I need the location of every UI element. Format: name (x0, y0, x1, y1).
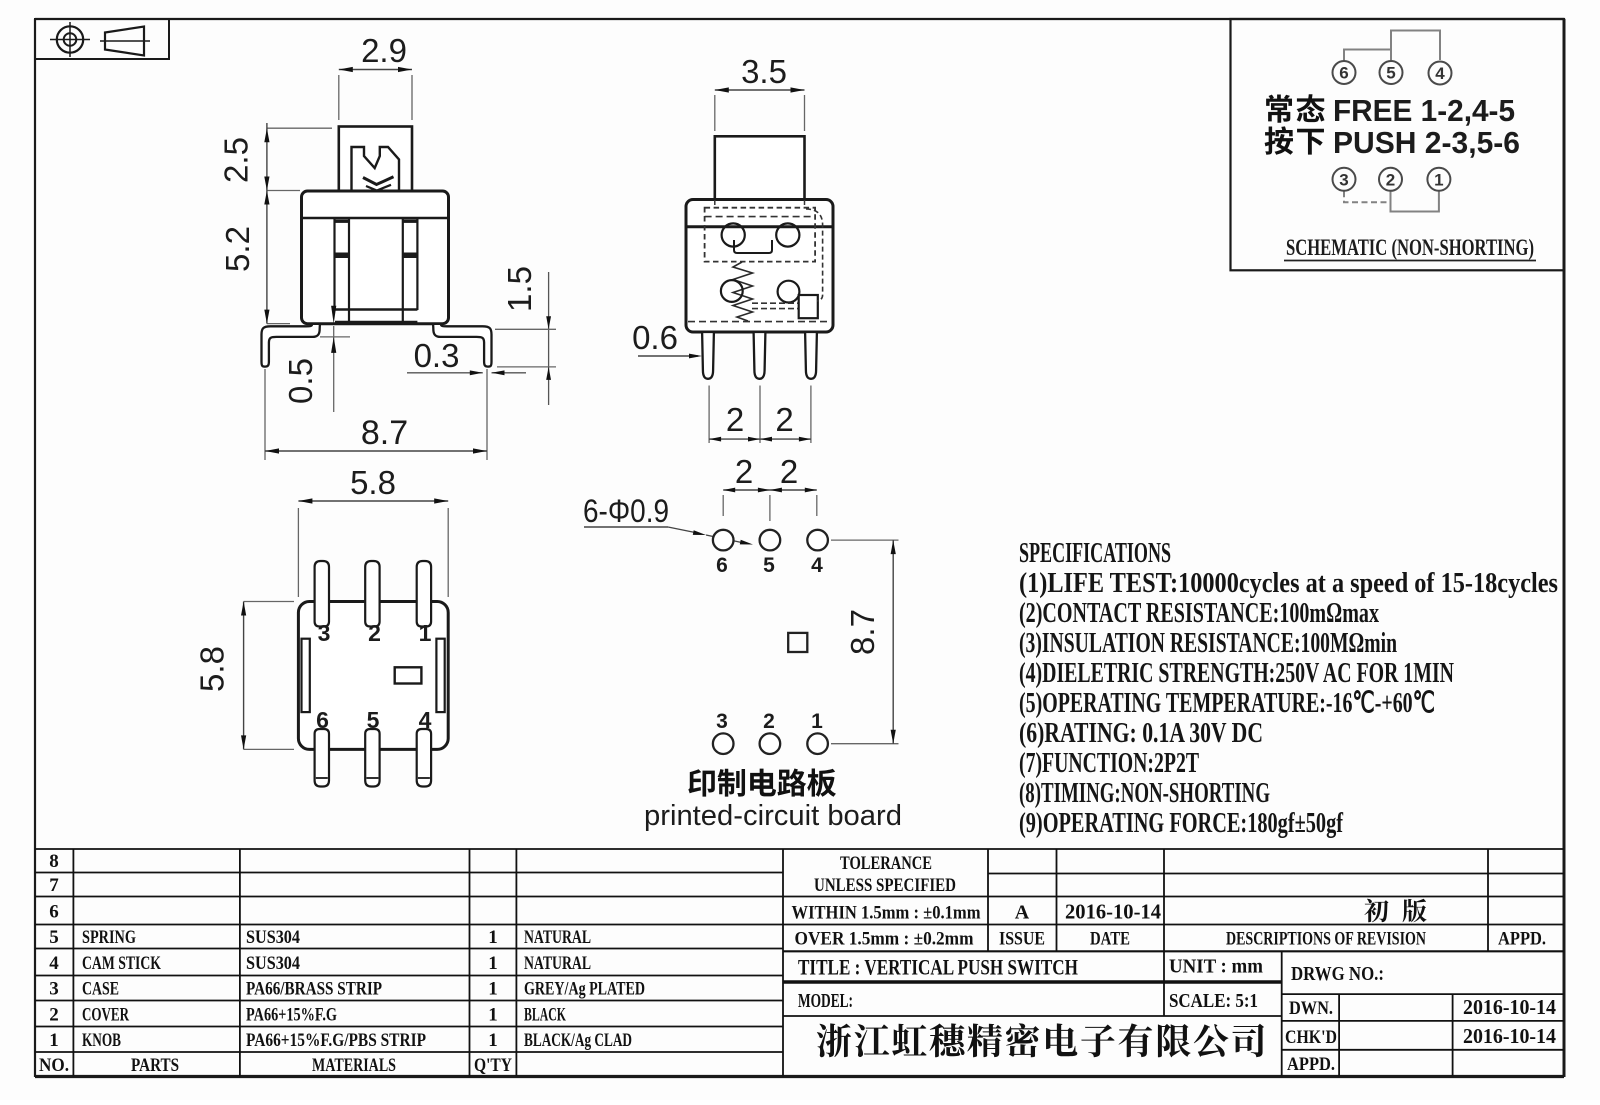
dimension 2.9 (knob width) (339, 32, 412, 120)
svg-text:(2)CONTACT RESISTANCE:100mΩmax: (2)CONTACT RESISTANCE:100mΩmax (1019, 597, 1379, 629)
svg-text:APPD.: APPD. (1498, 929, 1546, 950)
dimension 3.5 (side knob width) (715, 53, 805, 131)
parts header row (39, 1055, 512, 1076)
side view dashed wire along right wall (806, 209, 823, 301)
tolerance over row (795, 929, 974, 950)
schematic wire pin6 to pin5 (push state) (1344, 50, 1391, 61)
side view knob (715, 136, 805, 199)
svg-text:2: 2 (1386, 170, 1395, 189)
parts row 2 COVER (82, 1005, 566, 1026)
bottom view pin 2 (365, 561, 379, 627)
bottom view body outline (298, 602, 448, 750)
svg-text:2.9: 2.9 (361, 32, 407, 69)
side view spring (SPRING part) (733, 262, 753, 321)
svg-text:(7)FUNCTION:2P2T: (7)FUNCTION:2P2T (1019, 747, 1199, 779)
parts row 4 CAM STICK (82, 953, 591, 974)
svg-text:2: 2 (726, 401, 744, 438)
bottom view pin number 3 (318, 620, 331, 646)
bottom view pin number 2 (368, 620, 381, 646)
side view pin right (805, 332, 817, 379)
svg-text:(8)TIMING:NON-SHORTING: (8)TIMING:NON-SHORTING (1019, 777, 1270, 809)
svg-text:NO.: NO. (39, 1055, 69, 1076)
svg-text:3: 3 (318, 620, 331, 646)
svg-text:CAM STICK: CAM STICK (82, 953, 161, 974)
svg-text:2: 2 (49, 1005, 59, 1026)
pcb hole 2 (bottom row) (760, 733, 781, 754)
side view cam ball right (778, 281, 800, 303)
dimension 0.5 (leg thickness) (282, 306, 350, 412)
first-angle projection symbol box (35, 19, 169, 59)
bottom view left side groove (302, 639, 310, 712)
bottom view pin number 1 (419, 620, 432, 646)
side view pin middle (754, 332, 766, 379)
svg-text:SPECIFICATIONS: SPECIFICATIONS (1019, 537, 1171, 569)
parts row 3 CASE (82, 979, 645, 1000)
svg-text:SUS304: SUS304 (246, 927, 300, 948)
svg-text:1: 1 (49, 1030, 59, 1051)
bottom view pin number 6 (316, 707, 329, 733)
svg-text:Q'TY: Q'TY (474, 1055, 512, 1076)
svg-text:PA66+15%F.G/PBS STRIP: PA66+15%F.G/PBS STRIP (246, 1030, 426, 1051)
front view case body outline (CASE part) (302, 191, 449, 324)
side view case split line (686, 225, 833, 228)
svg-text:TITLE : VERTICAL PUSH SWITCH: TITLE : VERTICAL PUSH SWITCH (798, 955, 1078, 980)
dimension 1.5 (leg length below seat) (495, 266, 556, 405)
company name 浙江虹穗精密电子有限公司 (817, 1023, 1264, 1057)
svg-text:CHK'D: CHK'D (1285, 1027, 1337, 1048)
svg-text:ISSUE: ISSUE (999, 929, 1045, 950)
dimension 0.6 (pin diameter leader) (632, 319, 702, 358)
pcb hole label 3 (716, 710, 728, 733)
pcb hole 4 (top row) (807, 530, 828, 551)
bottom view pin 6 (315, 729, 329, 787)
svg-text:1: 1 (488, 1030, 498, 1051)
svg-text:DRWG NO.:: DRWG NO.: (1291, 963, 1384, 985)
projection symbol circle view (50, 22, 90, 57)
svg-text:NATURAL: NATURAL (524, 953, 591, 974)
svg-text:2016-10-14: 2016-10-14 (1463, 995, 1556, 1019)
pcb hole 3 (bottom row) (713, 733, 734, 754)
svg-text:1: 1 (488, 927, 498, 948)
projection symbol cone view (100, 27, 150, 56)
pcb hole label 6 (716, 554, 728, 577)
svg-text:6: 6 (1339, 64, 1348, 83)
bottom view keying rectangle (395, 667, 422, 683)
svg-text:TOLERANCE: TOLERANCE (840, 853, 932, 874)
svg-text:UNLESS SPECIFIED: UNLESS SPECIFIED (814, 875, 956, 896)
front view knob inner cam cutout (352, 147, 400, 190)
front view right bent leg (433, 324, 491, 367)
title block grid (783, 849, 1564, 1077)
svg-text:4: 4 (419, 707, 432, 733)
schematic state label FREE (1266, 93, 1515, 128)
svg-text:2016-10-14: 2016-10-14 (1463, 1024, 1556, 1048)
specifications text block (1019, 537, 1558, 839)
front view bottom band lines (335, 310, 417, 323)
svg-text:0.3: 0.3 (414, 337, 460, 374)
svg-text:FREE 1-2,4-5: FREE 1-2,4-5 (1333, 93, 1515, 128)
svg-text:PARTS: PARTS (131, 1055, 179, 1076)
pcb hole 5 (top row) (760, 530, 781, 551)
svg-text:2: 2 (763, 710, 775, 733)
pcb dimension 8.7 (row spacing) (831, 540, 899, 744)
svg-text:5.2: 5.2 (219, 226, 256, 272)
schematic caption (1284, 235, 1536, 261)
tolerance within row (792, 903, 981, 924)
svg-text:SCALE: 5:1: SCALE: 5:1 (1169, 990, 1258, 1012)
svg-text:2: 2 (368, 620, 381, 646)
parts row 5 SPRING (82, 927, 591, 948)
side view dashed base line (688, 321, 831, 323)
dwn row (1289, 995, 1556, 1019)
parts list table grid (35, 849, 783, 1077)
svg-text:(1)LIFE TEST:10000cycles at a: (1)LIFE TEST:10000cycles at a speed of 1… (1019, 567, 1558, 599)
chkd row (1285, 1024, 1556, 1048)
svg-text:2.5: 2.5 (218, 137, 255, 183)
svg-text:(5)OPERATING TEMPERATURE:-16℃-: (5)OPERATING TEMPERATURE:-16℃-+60℃ (1019, 687, 1435, 719)
svg-text:CASE: CASE (82, 979, 119, 1000)
svg-text:0.5: 0.5 (282, 358, 319, 404)
dimension 5.8 (bottom view width) (298, 464, 448, 597)
svg-text:DESCRIPTIONS OF REVISION: DESCRIPTIONS OF REVISION (1226, 929, 1426, 950)
schematic pin circle 3 (1333, 168, 1356, 191)
svg-text:1: 1 (488, 953, 498, 974)
svg-text:(4)DIELETRIC STRENGTH:250V AC: (4)DIELETRIC STRENGTH:250V AC FOR 1MIN (1019, 657, 1454, 689)
svg-text:WITHIN 1.5mm : ±0.1mm: WITHIN 1.5mm : ±0.1mm (792, 903, 981, 924)
svg-text:(9)OPERATING FORCE:180gf±50gf: (9)OPERATING FORCE:180gf±50gf (1019, 807, 1343, 839)
svg-text:PUSH 2-3,5-6: PUSH 2-3,5-6 (1333, 125, 1520, 160)
revision header DESCRIPTIONS OF REVISION (1226, 929, 1426, 950)
svg-text:2: 2 (775, 401, 793, 438)
svg-text:3.5: 3.5 (741, 53, 787, 90)
svg-text:1.5: 1.5 (501, 266, 538, 312)
front view knob arrow mark (363, 177, 394, 191)
svg-text:MATERIALS: MATERIALS (312, 1055, 396, 1076)
svg-text:1: 1 (488, 1005, 498, 1026)
schematic wire pin2 to pin1 (free state) (1391, 191, 1439, 211)
svg-text:2016-10-14: 2016-10-14 (1065, 900, 1161, 924)
dimension 5.8 (bottom view height) (194, 602, 295, 750)
svg-text:(3)INSULATION RESISTANCE:100MΩ: (3)INSULATION RESISTANCE:100MΩmin (1019, 627, 1397, 659)
scale cell (1169, 990, 1258, 1012)
revision header APPD (1498, 929, 1546, 950)
svg-text:KNOB: KNOB (82, 1030, 121, 1051)
title row (798, 955, 1078, 980)
svg-text:8.7: 8.7 (361, 414, 408, 452)
svg-text:4: 4 (811, 554, 823, 577)
svg-text:(6)RATING: 0.1A 30V DC: (6)RATING: 0.1A 30V DC (1019, 717, 1263, 749)
svg-text:6: 6 (49, 902, 59, 923)
pcb hole label 5 (763, 554, 775, 577)
svg-text:DWN.: DWN. (1289, 998, 1333, 1019)
revision row A date (1015, 900, 1162, 924)
appd row (1287, 1054, 1335, 1075)
bottom view pin number 5 (367, 707, 380, 733)
front view right inner slot (403, 218, 418, 322)
schematic wire pin5 to pin4 (free state) (1391, 31, 1440, 61)
front view left bent leg (262, 324, 320, 367)
svg-text:4: 4 (49, 953, 59, 974)
side view dashed contact strip (752, 303, 798, 308)
svg-text:3: 3 (716, 710, 728, 733)
svg-text:5: 5 (49, 927, 59, 948)
svg-text:5: 5 (367, 707, 380, 733)
svg-text:SPRING: SPRING (82, 927, 136, 948)
model row (798, 990, 853, 1012)
svg-text:PA66+15%F.G: PA66+15%F.G (246, 1005, 337, 1026)
tolerance cell (814, 853, 956, 896)
schematic pin circle 1 (1427, 168, 1450, 191)
side view contact rivet right (776, 223, 799, 246)
pcb label chinese 印制电路板 (688, 769, 836, 797)
unit cell (1169, 956, 1263, 978)
front view knob (KNOB part) (339, 127, 412, 192)
dimension 2.5 (knob height) (218, 123, 333, 191)
svg-text:COVER: COVER (82, 1005, 129, 1026)
svg-text:PA66/BRASS STRIP: PA66/BRASS STRIP (246, 979, 382, 1000)
side view pin left (702, 332, 714, 379)
svg-text:1: 1 (1434, 170, 1443, 189)
front view left inner slot (335, 218, 350, 322)
drwg no cell (1291, 963, 1384, 985)
svg-text:BLACK/Ag CLAD: BLACK/Ag CLAD (524, 1030, 632, 1051)
bottom view pin 5 (365, 729, 379, 787)
svg-text:5: 5 (763, 554, 775, 577)
svg-text:5.8: 5.8 (350, 464, 396, 501)
pcb hole label 2 (763, 710, 775, 733)
svg-text:SCHEMATIC (NON-SHORTING): SCHEMATIC (NON-SHORTING) (1286, 235, 1534, 260)
svg-text:6-Φ0.9: 6-Φ0.9 (583, 493, 669, 529)
schematic box border (1231, 19, 1565, 270)
side view inner mechanism dashed housing (705, 208, 816, 262)
svg-text:MODEL:: MODEL: (798, 990, 853, 1012)
dimension 0.3 (leg width) (407, 337, 526, 375)
side view terminal block (799, 295, 818, 318)
revision description 初版 (1364, 899, 1426, 923)
svg-text:5: 5 (1386, 64, 1395, 83)
svg-text:SUS304: SUS304 (246, 953, 300, 974)
svg-text:UNIT : mm: UNIT : mm (1169, 956, 1263, 978)
svg-text:OVER 1.5mm : ±0.2mm: OVER 1.5mm : ±0.2mm (795, 929, 974, 950)
side view case body outline (COVER part) (686, 200, 833, 333)
svg-text:1: 1 (488, 979, 498, 1000)
bottom view pin 1 (417, 561, 431, 627)
svg-text:7: 7 (49, 875, 59, 896)
schematic pin circle 5 (1380, 61, 1403, 84)
pcb hole label 4 (811, 554, 823, 577)
schematic pin circle 2 (1379, 168, 1402, 191)
svg-text:6: 6 (316, 707, 329, 733)
pcb dimension 2 2 (hole pitch) (723, 453, 817, 521)
svg-text:8.7: 8.7 (844, 609, 881, 655)
svg-text:2: 2 (780, 453, 798, 490)
bottom view pin number 4 (419, 707, 432, 733)
svg-text:2: 2 (735, 453, 753, 490)
svg-text:5.8: 5.8 (194, 646, 231, 692)
pcb hole 6 (top row) (713, 530, 734, 551)
svg-text:DATE: DATE (1090, 929, 1130, 950)
svg-text:APPD.: APPD. (1287, 1054, 1335, 1075)
pcb hole callout 6-Φ0.9 (583, 493, 753, 545)
pcb keying slot rectangle (788, 633, 807, 652)
svg-text:8: 8 (49, 851, 59, 872)
svg-text:NATURAL: NATURAL (524, 927, 591, 948)
pcb label printed-circuit board (644, 800, 902, 832)
side view cam ball left (721, 280, 743, 302)
svg-text:3: 3 (1339, 170, 1348, 189)
parts row 1 KNOB (82, 1030, 632, 1051)
revision header ISSUE DATE (999, 929, 1130, 950)
dimension 2 2 (side view pin pitch) (709, 386, 811, 444)
schematic state label PUSH (1265, 125, 1520, 160)
svg-text:4: 4 (1435, 64, 1445, 83)
schematic pin circle 4 (1429, 62, 1452, 85)
svg-text:0.6: 0.6 (632, 319, 678, 356)
svg-text:A: A (1015, 902, 1030, 924)
front view cover top band line (302, 217, 448, 219)
svg-text:6: 6 (716, 554, 728, 577)
schematic wire pin3 to pin2 (push state) (1344, 191, 1391, 202)
svg-text:1: 1 (419, 620, 432, 646)
pcb hole 1 (bottom row) (807, 733, 828, 754)
schematic pin circle 6 (1333, 61, 1356, 84)
svg-text:printed-circuit board: printed-circuit board (644, 800, 902, 832)
parts list row numbers (49, 851, 59, 1051)
dimension 8.7 (lead span front view) (265, 369, 487, 460)
side view movable bridge contact (734, 240, 772, 253)
pcb hole label 1 (811, 710, 823, 733)
bottom view pin 4 (417, 729, 431, 787)
side view knob dashed continuation (715, 200, 805, 209)
bottom view right side groove (436, 639, 444, 712)
dimension 5.2 (case height) (219, 191, 290, 324)
svg-text:1: 1 (811, 710, 823, 733)
side view contact rivet left (722, 223, 745, 246)
svg-text:GREY/Ag PLATED: GREY/Ag PLATED (524, 979, 645, 1000)
svg-text:3: 3 (49, 979, 59, 1000)
bottom view pin 3 (315, 561, 329, 627)
svg-text:BLACK: BLACK (524, 1005, 566, 1026)
